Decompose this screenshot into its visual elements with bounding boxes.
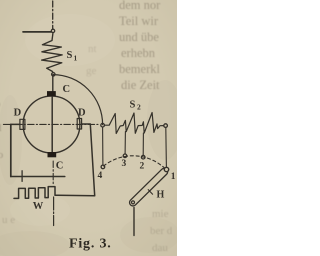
wire: horizontal lead at top left xyxy=(23,31,51,33)
svg-text:ber d: ber d xyxy=(150,225,173,237)
wire: vertical diameter (brush axis) xyxy=(51,96,53,153)
svg-text:nt: nt xyxy=(88,43,97,55)
spring S1 (coil) xyxy=(42,33,63,73)
svg-text:Fig. 3.: Fig. 3. xyxy=(69,237,112,252)
svg-text:1: 1 xyxy=(74,54,78,63)
svg-text:mie: mie xyxy=(152,208,169,220)
wire: lower vertical dash-dot axis (upper part) xyxy=(52,161,54,184)
brush C (top), solid block xyxy=(47,91,56,96)
svg-text:S: S xyxy=(130,100,136,111)
contact 1 ring at lever tip xyxy=(164,167,168,171)
svg-text:ge: ge xyxy=(86,65,97,77)
wire: stem from S1 bottom circle to top brush xyxy=(52,76,54,91)
node: S2 right terminal circle xyxy=(164,124,168,128)
wire: lower-left horizontal to brush lead xyxy=(11,176,65,178)
lever pivot inner circle xyxy=(132,201,135,204)
svg-text:H: H xyxy=(157,189,165,200)
svg-text:ю: ю xyxy=(0,149,3,161)
svg-text:die Zeit: die Zeit xyxy=(121,78,160,92)
wire: lower vertical dash-dot axis (below comb) xyxy=(53,197,55,226)
horizontal dash-dot axis through D-D xyxy=(3,123,98,125)
svg-text:C: C xyxy=(63,84,71,95)
contact 2 xyxy=(141,155,145,159)
svg-text:W: W xyxy=(33,201,44,212)
svg-text:bemerkl: bemerkl xyxy=(119,62,160,76)
svg-text:Teil wir: Teil wir xyxy=(119,14,159,28)
label S1 xyxy=(67,50,78,63)
label S2 xyxy=(130,100,142,112)
lever H (handle arm, capsule outline) xyxy=(133,172,164,203)
contact 3 xyxy=(123,154,127,158)
node: terminal circle at top of spring S1 xyxy=(51,29,54,32)
svg-text:2: 2 xyxy=(140,162,145,172)
dashed travel arc of lever across contacts xyxy=(104,156,165,169)
subtle paper mottling xyxy=(0,80,183,256)
pointer tick for label H xyxy=(148,190,152,195)
svg-text:dem nor: dem nor xyxy=(119,0,161,12)
svg-text:D: D xyxy=(14,108,22,119)
main figure xyxy=(3,1,175,236)
node: S2 left terminal circle xyxy=(101,123,105,127)
svg-text:1: 1 xyxy=(171,172,176,182)
wire: lever pivot lead downward xyxy=(133,208,135,236)
svg-text:D: D xyxy=(78,108,86,119)
bleed-through text (show-through from reverse page) xyxy=(0,0,173,254)
wire: top vertical dash-dot axis xyxy=(52,1,54,29)
paper background xyxy=(0,0,177,256)
wire: left rail down xyxy=(10,124,12,176)
wire: right loop (right D to comb) xyxy=(58,124,95,196)
rotor circle (commutator) xyxy=(23,96,80,153)
svg-text:S: S xyxy=(67,50,73,61)
wire: S2 right terminal down to contact 1 xyxy=(165,128,168,168)
wire: tap down to contact 3 xyxy=(124,132,126,154)
node: terminal circle at bottom of spring S1 xyxy=(52,73,55,76)
brush holder D (right), open box xyxy=(77,119,81,130)
wire: tap from S2 left terminal down to contact 4 xyxy=(102,127,104,165)
svg-text:C: C xyxy=(56,161,64,172)
svg-text:2: 2 xyxy=(137,103,141,112)
svg-text:erhebn: erhebn xyxy=(121,46,156,60)
svg-text:4: 4 xyxy=(98,171,103,181)
svg-text:dau: dau xyxy=(152,242,168,254)
svg-text:und übe: und übe xyxy=(119,30,159,44)
contact 4 xyxy=(101,165,105,169)
junction tick on lower-left wire xyxy=(21,171,23,182)
brush C (bottom), solid block xyxy=(48,152,57,157)
resistor S2 (tapped rheostat zigzag) xyxy=(104,113,163,134)
resistor W (heating comb) xyxy=(14,187,58,199)
svg-text:3: 3 xyxy=(122,159,127,169)
wire: quarter-circle arc from S1 to S2 left terminal xyxy=(53,75,103,125)
brush holder D (left), open box xyxy=(20,119,25,129)
wire: left D to left rail xyxy=(11,123,20,125)
svg-text:u e: u e xyxy=(2,214,15,226)
wire: tap down to contact 2 xyxy=(142,133,144,155)
